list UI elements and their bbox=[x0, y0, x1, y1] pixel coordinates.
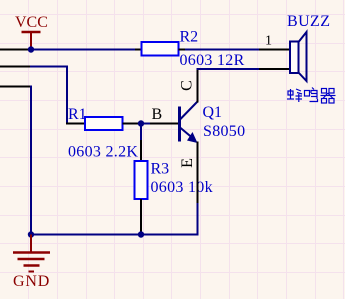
svg-text:C: C bbox=[179, 80, 196, 91]
svg-text:R2: R2 bbox=[180, 29, 199, 46]
svg-text:0603 10k: 0603 10k bbox=[151, 179, 213, 196]
junction: R3 to ground rail bbox=[138, 231, 144, 237]
pin: R1 pin 1 (black) bbox=[66, 123, 85, 125]
pin: R3 pin 2 (black) bbox=[140, 199, 142, 232]
svg-text:B: B bbox=[152, 106, 163, 123]
label buzzer Chinese name (drawn glyphs) bbox=[287, 88, 336, 104]
pin: R1 pin 2 (black) bbox=[123, 123, 142, 125]
pin: R2 pin 1 stub bbox=[135, 49, 142, 51]
transistor Q1 collector diagonal bbox=[180, 102, 198, 120]
wire: base node to transistor (navy then black pin) bbox=[141, 123, 150, 125]
junction: VCC node bbox=[28, 46, 34, 52]
wire: base net horizontal to corner (navy) bbox=[30, 66, 68, 68]
power symbol VCC bbox=[22, 32, 41, 50]
wire: emitter to ground rail (navy) bbox=[197, 203, 199, 234]
svg-text:GND: GND bbox=[13, 273, 50, 290]
svg-text:0603 2.2K: 0603 2.2K bbox=[68, 144, 138, 161]
svg-text:0603 12R: 0603 12R bbox=[180, 52, 245, 69]
junction: base node bbox=[138, 120, 144, 126]
pin: Q1 base pin (black) bbox=[150, 123, 179, 125]
wire: base net vertical down to R1 (navy) bbox=[66, 66, 68, 124]
svg-text:VCC: VCC bbox=[15, 14, 48, 31]
wire: collector to buzzer horizontal (navy) bbox=[197, 68, 260, 70]
wire: ground net vertical down (navy) bbox=[30, 86, 32, 235]
pin: Q1 collector (black vertical) bbox=[197, 68, 199, 103]
buzzer LS1 body bbox=[290, 32, 307, 81]
wire: R2 to buzzer (navy) bbox=[185, 49, 259, 51]
svg-text:Q1: Q1 bbox=[203, 104, 223, 121]
glyph qi (device) bbox=[321, 89, 336, 104]
resistor R3 body bbox=[135, 161, 148, 199]
glyph feng (bee) bbox=[287, 89, 302, 102]
transistor Q1 emitter diagonal bbox=[180, 128, 192, 138]
pin: R3 pin 1 (black) bbox=[140, 140, 142, 161]
svg-text:S8050: S8050 bbox=[203, 123, 245, 140]
pin: buzzer pin 1 (black) bbox=[259, 49, 290, 51]
transistor Q1 emitter arrowhead bbox=[187, 132, 198, 143]
junction: ground node bbox=[28, 231, 34, 237]
svg-text:E: E bbox=[179, 158, 196, 168]
wire: ground rail horizontal (navy) bbox=[31, 234, 199, 236]
ground symbol GND bbox=[13, 235, 50, 272]
wire: base net left stub (black, off-sheet) bbox=[0, 66, 30, 68]
svg-text:1: 1 bbox=[265, 34, 272, 49]
glyph ming (cry) bbox=[305, 88, 318, 102]
svg-text:BUZZ: BUZZ bbox=[287, 13, 330, 30]
resistor R2 body bbox=[142, 42, 179, 56]
pin: buzzer pin 2 (black) bbox=[259, 68, 290, 70]
pin: Q1 emitter (black vertical) bbox=[197, 142, 199, 204]
wire: base node down to R3 (navy) bbox=[140, 124, 142, 141]
wire: ground net left stub (black, off-sheet) bbox=[0, 86, 32, 88]
resistor R1 body bbox=[85, 117, 123, 130]
transistor Q1 base bar bbox=[178, 107, 181, 142]
wire: VCC net to R2 (navy) bbox=[29, 49, 136, 51]
svg-text:R1: R1 bbox=[68, 106, 87, 123]
wire: VCC net left stub (black, off-sheet) bbox=[0, 49, 29, 51]
svg-text:R3: R3 bbox=[151, 161, 170, 178]
pin: R2 pin 2 stub bbox=[179, 49, 186, 51]
